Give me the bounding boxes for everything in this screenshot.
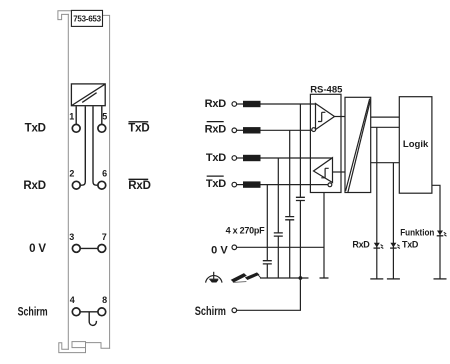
module body outline 753-653 — [58, 11, 110, 353]
node /RxD terminal — [205, 122, 237, 136]
wire pin5 lead — [101, 106, 103, 124]
wire /RxD to receiver bubble — [261, 129, 312, 131]
label /RxD module right — [128, 179, 150, 192]
label box 753-653 — [71, 10, 102, 26]
node TxD terminal — [206, 152, 237, 164]
svg-text:TxD: TxD — [25, 122, 46, 134]
wire isolation to Logik receiver path — [371, 116, 400, 118]
wire TxD LED drop — [392, 163, 394, 279]
wire Funktion LED drop from Logik — [432, 185, 440, 279]
coupling block between isolation and Logik — [371, 127, 400, 162]
svg-text:5: 5 — [102, 111, 107, 121]
galvanic isolation barrier box — [345, 97, 371, 192]
svg-text:TxD: TxD — [206, 178, 226, 190]
node /TxD terminal — [206, 176, 237, 190]
capacitor C2 line from /RxD — [285, 130, 294, 278]
node Schirm terminal — [195, 306, 237, 318]
wire equipotential rail — [260, 277, 309, 279]
capacitor C4 line from /TxD — [263, 185, 272, 278]
pin 6 — [98, 181, 106, 189]
wire RS-485 ground drop — [323, 193, 325, 279]
filter choke L3 on TxD — [237, 155, 261, 161]
pin 2 — [72, 181, 80, 189]
wire pin1 lead — [75, 106, 77, 124]
DIN rail symbol — [231, 273, 260, 283]
svg-text:Schirm: Schirm — [195, 306, 226, 318]
connector U-module transceiver box with diagonal — [71, 84, 105, 106]
module bottom latch rectangle — [72, 342, 86, 348]
svg-text:3: 3 — [69, 232, 74, 242]
wire pin4-pin8 link — [80, 311, 98, 313]
op-amp U1b driver triangle — [314, 158, 333, 187]
wire RxD LED drop — [376, 163, 378, 279]
wire RxD to receiver — [261, 103, 316, 105]
LED RxD — [352, 239, 383, 249]
svg-text:8: 8 — [102, 295, 107, 305]
wire Schirm to rail — [237, 278, 301, 310]
pin 8 — [98, 308, 106, 316]
op-amp U1a receiver triangle — [312, 104, 335, 132]
pin 5 — [98, 124, 106, 132]
LED Funktion — [400, 227, 446, 238]
earth symbol — [206, 272, 222, 283]
capacitor C1 line from RxD — [296, 104, 305, 278]
ground T-bar Funktion LED — [434, 278, 447, 280]
svg-text:6: 6 — [102, 168, 107, 178]
svg-text:TxD: TxD — [402, 240, 419, 250]
svg-text:RxD: RxD — [352, 239, 370, 249]
svg-text:7: 7 — [102, 232, 107, 242]
wire module top-right edge — [103, 15, 110, 348]
svg-text:Logik: Logik — [403, 139, 429, 150]
filter choke L1 on RxD — [237, 101, 261, 107]
node 0 V terminal — [211, 245, 236, 257]
RS-485 transceiver box U1 — [310, 85, 343, 193]
svg-text:TxD: TxD — [206, 152, 226, 164]
filter choke L4 on /TxD — [237, 181, 261, 187]
svg-text:1: 1 — [69, 111, 74, 121]
wire module left edge — [67, 14, 69, 349]
svg-text:0 V: 0 V — [211, 245, 228, 257]
LED TxD — [390, 240, 419, 250]
svg-text:0 V: 0 V — [29, 243, 46, 255]
pin 7 — [98, 245, 106, 253]
svg-text:Funktion: Funktion — [400, 227, 434, 238]
svg-text:RxD: RxD — [205, 124, 227, 136]
svg-text:2: 2 — [69, 168, 74, 178]
isolated ground T-bar for RS-485 — [320, 277, 329, 279]
svg-text:RxD: RxD — [23, 180, 45, 192]
svg-text:753-653: 753-653 — [73, 14, 101, 23]
svg-text:Schirm: Schirm — [18, 306, 48, 318]
shield hook on pin4-8 link — [89, 312, 96, 326]
ground T-bar RxD LED — [370, 278, 383, 280]
wire pin3-pin7 link — [80, 247, 98, 249]
wire 0 V rail — [237, 246, 324, 248]
filter choke L2 on /RxD — [237, 127, 261, 133]
wire receiver output to isolation — [335, 116, 346, 118]
wire /TxD from driver bubble — [261, 184, 329, 186]
node RxD terminal — [205, 98, 237, 110]
wire module bottom-right foot — [86, 343, 110, 349]
pin 4 — [72, 308, 80, 316]
wire pin6 lead — [93, 106, 98, 185]
wire module top-left latch step — [58, 11, 72, 20]
capacitor C3 line from TxD — [274, 158, 283, 278]
Logik block U2 — [399, 97, 432, 194]
pin 1 — [72, 124, 80, 132]
svg-text:TxD: TxD — [128, 123, 149, 135]
node junction dot — [299, 276, 303, 280]
label /TxD module right — [128, 122, 149, 135]
svg-text:4 x 270pF: 4 x 270pF — [226, 226, 266, 236]
wire pin2 lead — [80, 106, 85, 185]
svg-text:RxD: RxD — [128, 180, 150, 192]
wire TxD from driver — [261, 157, 333, 159]
pin 3 — [72, 245, 80, 253]
ground T-bar TxD LED — [387, 278, 400, 280]
wire module bottom foot profile — [59, 343, 86, 353]
wire driver input from isolation — [333, 171, 346, 173]
svg-text:RxD: RxD — [205, 98, 227, 110]
svg-text:4: 4 — [70, 295, 75, 305]
